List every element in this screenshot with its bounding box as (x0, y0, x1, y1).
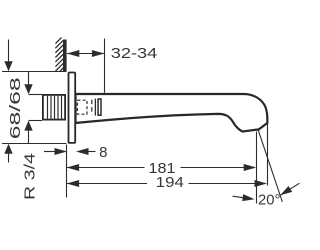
arrow 68 bottom (4, 144, 12, 154)
arrow nipple top (24, 84, 32, 94)
wall face ext line (66, 145, 68, 198)
arrow 194 right (255, 180, 268, 187)
insert body (98, 99, 101, 115)
dimension lines (2, 39, 300, 204)
arrow 32-34 right (92, 50, 105, 57)
arrow 8 left (55, 148, 68, 155)
inner dim line upper (28, 72, 30, 86)
8 dim leader right (87, 151, 96, 153)
20 deg slant line (258, 129, 283, 202)
dim line 32-34 (67, 53, 104, 55)
nipple bottom ext (29, 120, 43, 122)
ext line spout outer (267, 124, 269, 186)
thread nipple R3/4 (43, 95, 65, 120)
ext line 32-34 (104, 39, 106, 93)
arrow 8 right (76, 148, 89, 155)
svg-text:68/68: 68/68 (7, 77, 24, 139)
spout body (76, 94, 268, 132)
194 dim line left (67, 183, 147, 185)
left dim line 68/68 lower (8, 153, 10, 163)
svg-text:194: 194 (156, 174, 184, 191)
inner dim line lower (28, 130, 30, 144)
top ext line flange (2, 71, 67, 73)
arrow 194 left (67, 180, 80, 187)
svg-text:8: 8 (99, 144, 107, 161)
ext line spout tip (256, 132, 258, 204)
arrowheads (4, 50, 292, 201)
wall line (63, 40, 67, 72)
arrow 20deg left (242, 194, 254, 201)
insert line (94, 99, 96, 116)
arrow 20deg right (280, 186, 292, 195)
bottom ext line flange (2, 143, 67, 145)
left dim line 68/68 upper (8, 40, 10, 63)
svg-text:R 3/4: R 3/4 (21, 153, 38, 200)
hidden dashed line (91, 100, 93, 115)
arrow 181 right (244, 164, 257, 171)
nipple top ext (29, 94, 43, 96)
arrow 32-34 left (67, 50, 80, 57)
arrow 181 left (67, 164, 80, 171)
181 dim line right (181, 167, 246, 169)
8 dim leader left (44, 151, 57, 153)
181 dim line left (67, 167, 145, 169)
arrow nipple bottom (24, 121, 32, 131)
svg-text:32-34: 32-34 (111, 45, 158, 62)
194 dim line right (189, 183, 257, 185)
flange escutcheon (69, 73, 76, 143)
arrow 68 top (4, 61, 12, 71)
20 deg leader left (233, 196, 249, 198)
svg-text:20°: 20° (258, 191, 280, 208)
aerator hidden detail dashed box (77, 100, 87, 114)
thread lines (48, 96, 62, 120)
20 deg leader right (280, 183, 299, 195)
wall hatching (55, 36, 63, 76)
